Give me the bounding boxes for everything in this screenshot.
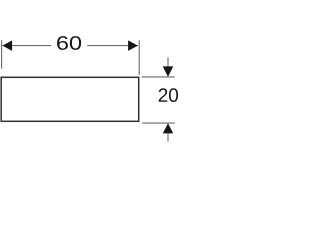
panel outline (object rectangle) <box>1 77 139 121</box>
arrowhead right (dimension 60) <box>128 40 138 51</box>
arrowhead up (dimension 20) <box>163 123 173 133</box>
extension line left (dimension 60) <box>1 40 3 68</box>
dimension label 60 <box>57 36 81 50</box>
extension line right (dimension 60) <box>138 40 140 75</box>
dimension line 60 right segment <box>87 45 138 47</box>
arrowhead left (dimension 60) <box>2 40 12 51</box>
lower stem (dimension 20) <box>167 133 169 141</box>
dimension line 60 left segment <box>2 45 51 47</box>
top extension line (dimension 20) <box>142 76 175 78</box>
arrowhead down (dimension 20) <box>163 66 173 77</box>
dimension label 20 <box>159 88 178 102</box>
bottom extension line (dimension 20) <box>142 122 175 124</box>
upper stem (dimension 20) <box>167 57 169 66</box>
